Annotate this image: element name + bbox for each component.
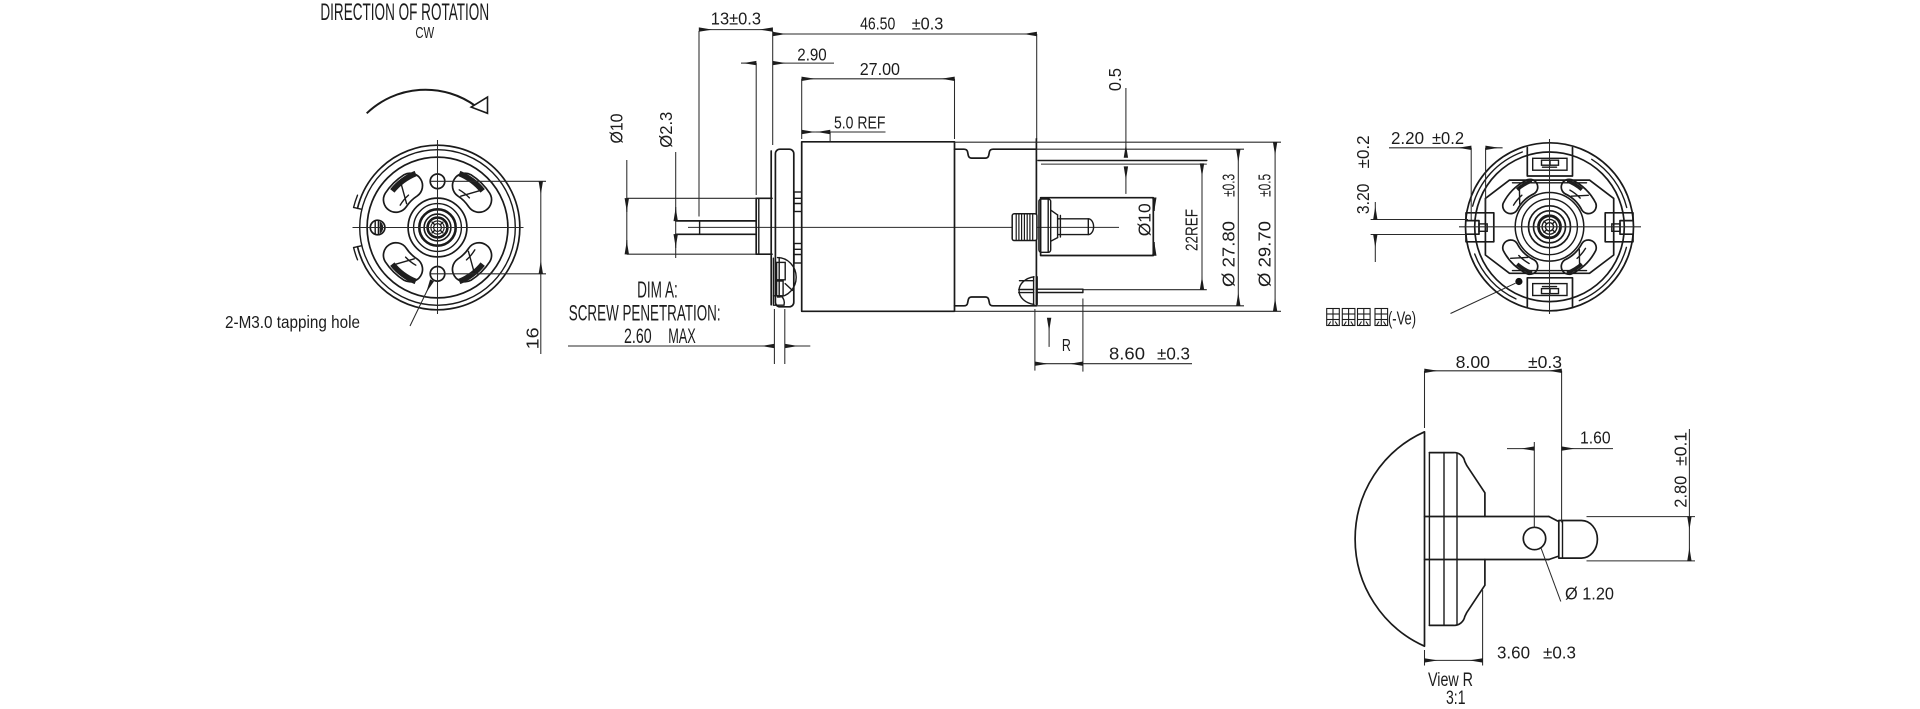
- svg-text:46.50: 46.50: [860, 14, 895, 34]
- front view outer circle (can OD, broken at left): [358, 145, 520, 310]
- gearbox front plate: [770, 151, 772, 305]
- dimension Ø27.80 ±0.3: [1237, 149, 1239, 306]
- dimension 13±0.3: [698, 31, 700, 217]
- svg-text:±0.3: ±0.3: [1219, 174, 1239, 197]
- svg-text:SCREW PENETRATION:: SCREW PENETRATION:: [569, 300, 721, 325]
- DIM A leader line: [568, 345, 774, 347]
- svg-text:Ø10: Ø10: [1135, 203, 1155, 236]
- svg-text:Ø2.3: Ø2.3: [656, 112, 676, 148]
- motor can rear face: [1035, 139, 1037, 306]
- long extension line bottom (Ø27.80 level): [1036, 305, 1244, 307]
- svg-text:2.60: 2.60: [624, 325, 652, 348]
- rear terminal block bottom: [1527, 278, 1572, 307]
- rear center ticks: [1552, 230, 1555, 233]
- side view: gearmotor assembly: [627, 139, 1281, 311]
- svg-text:DIM A:: DIM A:: [637, 277, 678, 303]
- svg-text:DIRECTION OF ROTATION: DIRECTION OF ROTATION: [320, 0, 489, 26]
- DIM A mounting screw (front, lower): [778, 258, 797, 297]
- svg-text:2-M3.0 tapping hole: 2-M3.0 tapping hole: [225, 312, 360, 332]
- rear bearing boss: [1039, 199, 1051, 252]
- front left screw hole (slotted, dark right): [370, 220, 385, 235]
- svg-text:2.20: 2.20: [1391, 128, 1424, 148]
- svg-text:3.60: 3.60: [1497, 643, 1530, 663]
- rear vent slot NE: [1561, 179, 1596, 213]
- long extension line (Ø27.80 level): [1036, 148, 1244, 150]
- dimension 3.60 ±0.3: [1424, 650, 1426, 666]
- front view: motor face: [353, 140, 524, 314]
- rear terminal block top: [1527, 148, 1572, 177]
- svg-text:Ø 27.80: Ø 27.80: [1219, 221, 1239, 287]
- dimension 16 extension lines: [430, 180, 546, 182]
- dome (end cap bump): [1355, 432, 1424, 646]
- motor pinion (knurled): [1012, 214, 1037, 241]
- svg-text:R: R: [1062, 335, 1071, 355]
- front vent slot SW: [383, 243, 422, 282]
- rear vent slot SW: [1503, 240, 1538, 274]
- front M3 tapping hole bottom: [430, 267, 445, 282]
- svg-text:±0.2: ±0.2: [1432, 128, 1464, 148]
- label 负极黑点(-Ve) (CJK glyph approximation): [1327, 309, 1388, 326]
- front view inner face circle: [367, 157, 508, 298]
- rear crimp arc bottom-left: [1475, 254, 1516, 299]
- rear side tab left: [1466, 213, 1494, 242]
- dimension 2.20 ±0.2: [1470, 148, 1472, 220]
- plate screw tab bottom: [794, 244, 802, 264]
- rear crosshair vertical: [1549, 139, 1551, 314]
- svg-text:3.20: 3.20: [1353, 183, 1373, 214]
- rear boss circles: [1515, 193, 1584, 262]
- svg-text:MAX: MAX: [668, 325, 696, 348]
- long extension line top (Ø29.70 level): [955, 141, 1282, 143]
- dimension Ø2.3 (shaft): [675, 152, 677, 258]
- svg-text:±0.1: ±0.1: [1671, 432, 1691, 466]
- centerline: [688, 226, 1119, 228]
- front view rolled rim circle: [360, 150, 516, 306]
- view R detail: terminal 3:1: [1355, 432, 1597, 646]
- rear inner circle: [1475, 152, 1625, 302]
- dimension 16 line: [540, 181, 542, 273]
- dimension 0.5: [1125, 88, 1127, 158]
- svg-text:Ø 1.20: Ø 1.20: [1565, 583, 1614, 603]
- rear view: motor end cap: [1451, 139, 1642, 314]
- shaft end face: [699, 221, 701, 234]
- inner top lines (0.5 step): [1038, 160, 1207, 162]
- dimension Ø10 (front boss): [626, 160, 628, 254]
- svg-text:22REF: 22REF: [1182, 209, 1202, 251]
- gearbox housing body (Ø29.70 x 27.00): [802, 142, 955, 311]
- front crosshair horizontal: [353, 227, 524, 229]
- output shaft: [676, 220, 757, 222]
- dimension 8.60 ±0.3: [1034, 309, 1036, 371]
- dimension Ø29.70 ±0.5: [1274, 142, 1276, 311]
- bar bend chamfers: [1549, 517, 1558, 522]
- rear mounting screw: [1019, 277, 1034, 305]
- leader Ø 1.20: [1541, 548, 1561, 602]
- dimension 8.00 ±0.3: [1424, 371, 1426, 428]
- negative polarity dot: [1515, 278, 1522, 285]
- svg-text:±0.3: ±0.3: [1543, 643, 1576, 663]
- svg-text:2.90: 2.90: [797, 45, 827, 65]
- svg-text:2.80: 2.80: [1671, 475, 1691, 507]
- svg-text:Ø10: Ø10: [607, 113, 627, 143]
- leader R: [1048, 318, 1050, 347]
- rear shaft stub: [1058, 219, 1094, 235]
- svg-text:±0.3: ±0.3: [912, 14, 944, 34]
- Ø10 extension lines (left): [627, 197, 756, 199]
- bottom reference line 22REF: [1083, 289, 1207, 291]
- svg-text:Ø 29.70: Ø 29.70: [1255, 221, 1275, 287]
- rotation arc arrow: [367, 90, 476, 114]
- svg-text:3:1: 3:1: [1446, 688, 1466, 709]
- svg-text:27.00: 27.00: [860, 59, 901, 79]
- front bearing boss circles: [408, 198, 467, 257]
- dimension 5.0 REF: [829, 132, 831, 141]
- rear crosshair horizontal: [1459, 226, 1641, 228]
- long extension line bottom (Ø29.70 level): [955, 310, 1282, 312]
- front bearing boss: [756, 197, 772, 199]
- leader arrow to bottom hole: [410, 281, 432, 327]
- motor can bottom edge with crimp notch: [955, 297, 1037, 306]
- svg-text:0.5: 0.5: [1105, 68, 1125, 91]
- dimension 2.90: [755, 63, 757, 195]
- front vent slot NE: [452, 173, 491, 212]
- svg-text:16: 16: [523, 327, 543, 349]
- svg-text:±0.3: ±0.3: [1528, 352, 1562, 372]
- terminal strip bar: [1425, 516, 1549, 518]
- rear outer circle: [1466, 143, 1634, 311]
- front center tick marks: [440, 230, 443, 233]
- dimension Ø10 (rear): [1153, 198, 1155, 211]
- rear vent slot NW: [1503, 179, 1538, 213]
- motor can section (Ø27.80) top edge with crimp notch: [955, 149, 1037, 158]
- svg-text:±0.2: ±0.2: [1353, 135, 1373, 168]
- svg-text:5.0 REF: 5.0 REF: [834, 112, 885, 132]
- rear vent slot SE: [1561, 240, 1596, 274]
- plate screw tab top: [794, 192, 802, 212]
- svg-text:(-Ve): (-Ve): [1388, 309, 1416, 329]
- terminal end cap: [1559, 521, 1598, 559]
- svg-text:8.00: 8.00: [1456, 352, 1491, 372]
- terminal hole Ø1.20: [1523, 527, 1545, 549]
- front vent slot SE: [452, 243, 491, 282]
- rear crimp arc top-right: [1592, 159, 1627, 207]
- svg-text:13±0.3: 13±0.3: [711, 9, 761, 29]
- leader to dot: [1451, 283, 1516, 313]
- rear side tab right: [1605, 213, 1633, 242]
- front view left ear arc top: [354, 195, 358, 207]
- flange profile bottom: [1429, 560, 1485, 626]
- rear crimp arc bottom-right: [1579, 247, 1626, 300]
- front view left ear arc bottom: [354, 248, 358, 260]
- bearing cone step: [1051, 210, 1058, 215]
- flange profile top: [1429, 453, 1485, 517]
- rear screw shank (8.60): [1037, 288, 1083, 290]
- dimension 3.20 ±0.2: [1371, 219, 1468, 221]
- dimension 27.00: [801, 79, 803, 139]
- svg-text:±0.3: ±0.3: [1157, 344, 1190, 364]
- svg-text:CW: CW: [415, 25, 434, 42]
- dimension 1.60: [1533, 442, 1535, 528]
- rear crimp arc top-left: [1473, 152, 1523, 206]
- front crosshair vertical: [437, 140, 439, 314]
- front M3 tapping hole top: [430, 174, 445, 189]
- dimension 22REF: [1201, 164, 1203, 290]
- svg-text:±0.5: ±0.5: [1255, 174, 1275, 197]
- svg-text:8.60: 8.60: [1109, 344, 1145, 364]
- rear bearing housing (Ø10 x 22REF section): [1041, 198, 1154, 256]
- rear octagon brush card outline: [1485, 180, 1613, 273]
- dimension 46.50 ±0.3: [1036, 34, 1038, 139]
- dimension 2.80 ±0.1: [1587, 516, 1696, 518]
- flange inner vertical lines: [1428, 453, 1430, 626]
- svg-text:1.60: 1.60: [1580, 428, 1611, 448]
- front vent slot NW: [383, 173, 422, 212]
